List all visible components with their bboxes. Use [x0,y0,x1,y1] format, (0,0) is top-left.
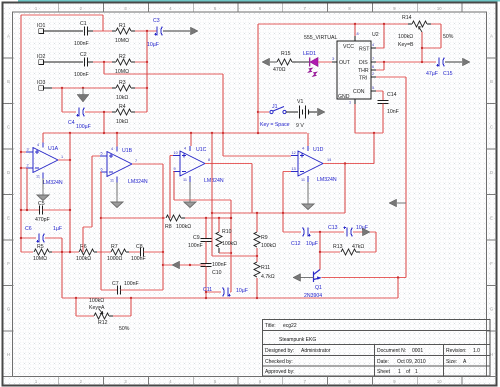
wire [92,155,100,157]
svg-text:U2: U2 [372,32,379,38]
svg-text:C6: C6 [25,226,32,232]
svg-text:6: 6 [372,65,374,69]
wire [421,48,423,62]
svg-text:10kΩ: 10kΩ [116,95,128,101]
wire [52,87,112,89]
title block [263,320,491,377]
svg-text:3: 3 [27,148,29,152]
wire [75,298,77,316]
svg-text:10: 10 [437,379,442,384]
transistor Q1 2N3904 [314,270,321,283]
wire [144,251,163,253]
wire [21,209,39,211]
wire [205,242,207,264]
wire [383,24,385,48]
wire [222,74,224,156]
ground arrow below IO3 wire [82,88,84,95]
wire [353,231,376,233]
svg-text:R4: R4 [119,104,126,110]
svg-text:1000Ω: 1000Ω [107,256,123,262]
svg-text:Administrator: Administrator [301,348,331,354]
junction dot [20,151,22,153]
wire [421,32,423,48]
wire [440,24,442,48]
svg-text:V1: V1 [297,99,303,105]
teal window top edge [18,0,500,1]
resistor R7 [111,249,126,255]
junction dot [20,237,22,239]
junction dot [190,132,192,134]
wire [21,237,36,239]
svg-text:4: 4 [372,43,374,47]
wire [43,209,70,211]
svg-text:C9: C9 [193,235,200,241]
resistor R15 [277,59,292,65]
wire [205,267,207,292]
svg-text:100nF: 100nF [188,243,203,249]
op-amp U1D [291,146,323,182]
svg-text:U1C: U1C [196,147,207,153]
capacitor C3 [154,27,162,36]
wire [103,112,105,133]
junction dot [20,209,22,211]
wire [52,251,79,253]
junction dot [344,162,346,164]
junction dot [146,61,148,63]
junction dot [61,251,63,253]
svg-text:10MΩ: 10MΩ [115,38,129,44]
wire [258,23,408,25]
wire [83,226,92,228]
svg-text:4.7kΩ: 4.7kΩ [261,274,275,280]
wire [283,171,291,173]
wire [256,278,258,298]
svg-text:U1B: U1B [122,148,133,154]
wire [43,132,307,134]
top ruler band dividers and numbers [59,4,462,386]
svg-text:6: 6 [101,168,103,172]
on-page connector arrow [262,58,270,66]
svg-text:R12: R12 [98,320,108,326]
wire [257,24,259,133]
wire [376,76,406,78]
svg-text:LM324N: LM324N [204,178,224,184]
svg-text:F: F [490,261,493,266]
svg-text:470Ω: 470Ω [273,67,286,73]
junction dot [69,132,71,134]
wire [113,315,131,317]
wire [296,61,309,63]
resistor R5 [34,249,49,255]
svg-text:C15: C15 [443,71,453,77]
junction dot [218,217,220,219]
svg-text:4: 4 [37,143,39,147]
svg-text:Designed by:: Designed by: [265,348,294,354]
wire [100,171,101,173]
wire [132,163,163,165]
wire [163,264,206,266]
junction dot [421,47,423,49]
wire [82,227,84,252]
svg-text:10µF: 10µF [236,288,248,294]
svg-text:12: 12 [292,151,296,155]
resistor R8 [166,215,181,221]
svg-text:5: 5 [101,152,103,156]
svg-text:1µF: 1µF [53,226,62,232]
svg-text:10µF: 10µF [306,241,318,247]
wire [219,252,231,254]
svg-text:100nF: 100nF [124,281,139,287]
svg-text:11: 11 [36,175,40,179]
wire [205,163,252,165]
svg-text:D: D [7,170,10,175]
wire [135,30,157,32]
wire [375,232,377,252]
svg-text:ecg22: ecg22 [283,323,297,329]
svg-text:R11: R11 [261,265,270,271]
svg-text:10MΩ: 10MΩ [115,69,129,75]
svg-text:R15: R15 [281,51,291,57]
junction dot [205,297,207,299]
wire [100,172,102,290]
junction dot [421,61,423,63]
svg-text:8: 8 [208,158,210,162]
svg-text:50%: 50% [119,326,130,332]
junction dot [230,217,232,219]
wire [116,133,118,147]
junction dot [116,132,118,134]
svg-text:B: B [7,79,10,84]
svg-text:LED1: LED1 [303,51,316,57]
svg-text:R1: R1 [119,23,126,29]
junction dot [69,251,71,253]
svg-text:Document N:: Document N: [377,348,406,354]
junction dot [103,61,105,63]
junction dot [257,132,259,134]
svg-text:13: 13 [292,167,296,171]
wire [270,61,277,63]
junction dot [162,251,164,253]
wire [354,104,356,133]
svg-text:10nF: 10nF [387,109,399,115]
svg-text:R5: R5 [37,244,44,250]
junction dot [256,255,258,257]
junction dot [146,87,148,89]
svg-text:9 V: 9 V [296,123,304,129]
wire [104,73,223,75]
svg-text:100kΩ: 100kΩ [89,298,104,304]
wire [230,291,231,293]
wire [76,315,94,317]
wire [173,171,174,173]
svg-text:Size:: Size: [446,359,457,365]
wire [323,163,374,165]
svg-text:100nF: 100nF [74,72,89,78]
junction dot [162,264,164,266]
wire [283,231,301,233]
svg-text:R8: R8 [165,224,172,230]
wire [190,133,192,146]
connector IO1 [39,29,44,34]
wire [43,87,52,89]
svg-text:D: D [490,170,493,175]
wire [256,213,258,232]
on-page connector arrow [318,108,326,116]
svg-text:H: H [7,352,10,357]
svg-text:100nF: 100nF [212,262,227,268]
capacitor C12 [303,228,311,237]
svg-text:10MΩ: 10MΩ [33,256,47,262]
junction dot [383,23,385,25]
on-page connector arrow [191,27,199,35]
wire [397,202,406,204]
svg-text:2N3904: 2N3904 [304,293,322,299]
svg-text:555_VIRTUAL: 555_VIRTUAL [304,35,337,41]
svg-text:100nF: 100nF [131,256,146,262]
on-page connector arrow at Q1 base [293,274,301,282]
wire [42,133,44,143]
junction dot [282,212,284,214]
wire [354,24,356,36]
svg-text:4: 4 [184,147,186,151]
wire [103,62,105,74]
svg-text:11: 11 [183,178,187,182]
wire [286,111,298,113]
wire [405,77,407,278]
junction dot [354,23,356,25]
wire [431,23,441,25]
svg-text:47kΩ: 47kΩ [352,244,364,250]
wire [376,90,383,92]
resistor R4 [112,111,116,113]
wire [97,251,111,253]
wire [58,159,70,161]
wire [251,164,253,214]
wire [382,91,384,100]
svg-text:3: 3 [332,57,334,61]
on-page connector arrow [463,58,471,66]
ground at U1D pin 11 [302,198,314,210]
svg-text:LM324N: LM324N [128,179,148,185]
svg-text:C4: C4 [68,120,75,126]
wire Q1 base stub [300,277,314,279]
wire [355,132,383,134]
wire [62,111,76,113]
wire [20,15,22,252]
svg-text:A: A [7,34,10,39]
svg-text:Checked by:: Checked by: [265,359,293,365]
svg-text:of: of [406,369,411,375]
junction dot [256,297,258,299]
svg-text:IO2: IO2 [37,54,45,60]
wire [205,292,207,298]
svg-text:U1D: U1D [313,147,324,153]
junction dot [189,264,191,266]
555 pin stubs [332,36,376,104]
wire [21,14,103,16]
wire [43,30,83,32]
svg-text:8: 8 [357,32,359,36]
junction dot [103,111,105,113]
svg-text:C5: C5 [38,201,45,207]
svg-text:100µF: 100µF [76,124,91,130]
wire [85,111,112,113]
ground at U1C pin 11 [184,196,196,208]
ground at U1A pin 11 [42,179,44,190]
svg-text:10µF: 10µF [147,42,159,48]
svg-text:10: 10 [174,151,178,155]
junction dot [103,132,105,134]
svg-text:Approved by:: Approved by: [265,369,294,375]
wire [218,218,220,232]
svg-text:100kΩ: 100kΩ [222,241,237,247]
svg-text:E: E [7,216,10,221]
svg-text:C8: C8 [136,244,143,250]
junction dot [205,217,207,219]
wire [382,104,384,133]
wire [121,289,163,291]
junction dot [211,212,213,214]
svg-text:Key=B: Key=B [398,42,414,48]
on-page connector arrow mid right [389,199,397,207]
svg-text:Revision:: Revision: [446,348,467,354]
wire [162,164,164,290]
junction dot [222,132,224,134]
svg-text:C11: C11 [203,287,212,293]
op-amp U1C [173,146,205,182]
wire [146,31,148,112]
wire [163,30,190,32]
wire [223,155,291,157]
wire [408,23,411,25]
wire [21,151,26,153]
svg-text:R14: R14 [402,15,412,21]
wire [43,61,83,63]
svg-text:1: 1 [398,369,401,375]
wire [373,133,375,164]
svg-text:G: G [490,307,493,312]
svg-text:4: 4 [111,147,113,151]
wire [174,199,231,201]
junction dot [82,87,84,89]
wire [102,15,104,31]
wire [230,200,232,292]
resistor R6 [79,249,94,255]
wire [88,61,93,63]
wire [282,213,284,232]
svg-text:OUT: OUT [339,60,351,66]
wire [93,61,112,63]
svg-text:100kΩ: 100kΩ [176,224,191,230]
junction dot [319,231,321,233]
capacitor C11 [223,288,231,297]
svg-text:Date:: Date: [377,359,389,365]
svg-text:VCC: VCC [343,44,354,50]
svg-text:1: 1 [349,101,351,105]
junction dot [61,87,63,89]
svg-text:DIS: DIS [359,60,368,66]
wire [69,133,71,160]
junction dot [256,212,258,214]
capacitor C8 [140,248,143,257]
wire [212,212,345,214]
svg-text:2: 2 [27,164,29,168]
svg-text:C14: C14 [387,92,397,98]
capacitor C14 [378,100,389,103]
wire [376,47,384,49]
wire [69,160,71,252]
svg-text:Title:: Title: [265,323,276,329]
wire [344,164,346,214]
wire [422,47,441,49]
junction dot [230,252,232,254]
wire [360,251,376,253]
svg-text:R7: R7 [111,244,118,250]
svg-text:J1: J1 [272,104,278,110]
svg-text:11: 11 [301,178,305,182]
svg-text:RST: RST [359,47,370,53]
svg-text:LM324N: LM324N [43,180,63,186]
555 timer U2 [337,41,371,99]
svg-text:U1A: U1A [48,146,59,152]
svg-text:C13: C13 [328,225,338,231]
svg-text:1: 1 [61,155,63,159]
op-amp U1B [100,147,132,183]
capacitor C6 [36,234,44,243]
svg-text:C12: C12 [291,241,301,247]
wire [26,168,28,210]
svg-text:C: C [7,125,10,130]
svg-text:LM324N: LM324N [317,177,337,183]
svg-text:CON: CON [353,89,365,95]
wire [282,172,284,214]
svg-text:IO1: IO1 [37,23,45,29]
svg-text:C10: C10 [212,270,222,276]
connector IO2 [39,60,44,65]
svg-text:7: 7 [372,57,374,61]
svg-text:4: 4 [302,147,304,151]
resistor R11 [254,262,260,277]
wire [91,156,93,227]
wire [62,297,398,299]
wire [445,61,462,63]
wire [169,156,171,219]
junction dot [20,167,22,169]
junction dot [319,251,321,253]
wire [61,238,63,298]
junction dot [230,217,232,219]
wire [61,88,63,112]
svg-text:100kΩ: 100kΩ [76,256,91,262]
capacitor C10 [201,263,212,266]
junction dot [69,209,71,211]
capacitor C1 [84,27,87,36]
svg-text:Sheet: Sheet [377,369,391,375]
wire [21,251,33,253]
wire [206,291,221,293]
svg-text:10kΩ: 10kΩ [116,119,128,125]
svg-text:C1: C1 [80,21,87,27]
wire [129,251,140,253]
wire [101,217,165,219]
wire [258,111,269,113]
svg-text:5: 5 [372,86,374,90]
capacitor C15 [436,58,444,67]
svg-text:Oct 09, 2010: Oct 09, 2010 [397,359,426,365]
wire [383,62,385,70]
svg-text:C3: C3 [153,18,160,24]
svg-text:GND: GND [338,94,350,100]
